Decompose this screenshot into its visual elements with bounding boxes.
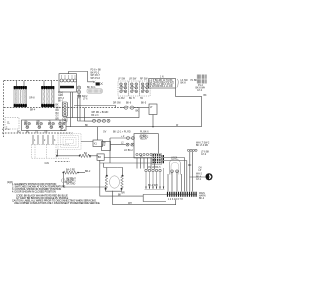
wire to oven lamp (189, 176, 206, 178)
svg-text:RD: RD (56, 110, 60, 112)
relay board box (134, 134, 164, 164)
svg-text:BK-6: BK-6 (126, 102, 132, 104)
harness bundle verticals (145, 168, 165, 189)
svg-text:LT-6: LT-6 (83, 99, 88, 101)
svg-text:BK-5: BK-5 (141, 103, 147, 105)
oven lamp (196, 168, 212, 181)
svg-text:RF SW: RF SW (140, 78, 148, 80)
svg-text:BU H: BU H (129, 98, 135, 100)
svg-text:LF SW: LF SW (118, 78, 126, 80)
svg-text:USE COPPER CONDUCTORS ONLY. DI: USE COPPER CONDUCTORS ONLY. DISCONNECT P… (14, 202, 101, 205)
terminal strip TB1 (167, 192, 198, 201)
maintop dashed boundary top (4, 80, 59, 82)
infinite switch SW1 (118, 81, 129, 96)
svg-text:GY-2: GY-2 (201, 154, 207, 156)
P2 pin circles (60, 79, 63, 82)
svg-text:BK-8: BK-8 (181, 82, 187, 84)
svg-text:BU: BU (26, 131, 30, 133)
short dashed segment (55, 160, 70, 162)
relay contact wires row 1 (110, 136, 149, 140)
latch switch box (169, 158, 180, 175)
svg-text:HARN: HARN (199, 195, 206, 198)
bottom wire row 2 (113, 191, 176, 205)
relay contact wires row 2 (103, 138, 134, 163)
svg-text:CL-4: CL-4 (60, 130, 66, 132)
svg-text:OV: OV (199, 168, 203, 170)
twin wires down from P2 area (71, 92, 85, 127)
svg-text:BK: BK (103, 142, 107, 144)
svg-text:BR: BR (98, 157, 102, 159)
svg-text:BR-2: BR-2 (85, 171, 91, 173)
svg-text:GRD: GRD (58, 95, 63, 97)
connector P2 box (59, 74, 77, 92)
svg-text:WH-P1-6: WH-P1-6 (91, 78, 101, 80)
svg-text:WH: WH (56, 107, 60, 109)
svg-text:BA: BA (84, 152, 88, 155)
wire right at 105.5 (74, 106, 116, 108)
svg-text:WH P2-7: WH P2-7 (91, 75, 101, 77)
svg-text:N WH-BR BK-4 L1 RD: N WH-BR BK-4 L1 RD (150, 86, 173, 88)
wire at 163 (100, 160, 152, 187)
svg-text:LOCK: LOCK (171, 158, 178, 160)
svg-text:P2-8 + BK: P2-8 + BK (91, 70, 102, 72)
wires latch box to terminal (168, 158, 187, 192)
verticals right of latch box (190, 152, 193, 192)
pin labels left of P3 (56, 105, 60, 121)
legend notes block (7, 181, 101, 205)
wires to broil legs (107, 168, 123, 176)
long feed wire across middle (66, 126, 202, 128)
svg-text:GY-4: GY-4 (197, 90, 203, 92)
svg-text:CAV: CAV (45, 162, 50, 165)
wire from box going right (104, 157, 152, 159)
broil loop element right leg (121, 175, 124, 190)
wires block to right verticals (162, 158, 187, 161)
motor dashed enclosure (32, 144, 70, 165)
wires dropping from selector (33, 135, 53, 145)
svg-text:BK: BK (56, 105, 60, 107)
stub nested box to bake wire (57, 150, 59, 156)
svg-text:OV: OV (103, 132, 107, 134)
component TOD box (141, 103, 157, 115)
svg-text:LR SW: LR SW (129, 78, 137, 80)
dashed line under selector (2, 128, 10, 130)
svg-text:WH: WH (128, 203, 132, 205)
wire from table to P1 drop (176, 88, 202, 127)
svg-text:BK: BK (204, 95, 208, 97)
wire door sw loop to selector (120, 107, 139, 109)
small box K1 (93, 140, 103, 147)
svg-text:RD: RD (17, 131, 21, 133)
thermostat contact row (91, 112, 110, 122)
svg-text:BR: BR (37, 122, 41, 124)
oven door switch on dashed line (113, 102, 139, 112)
maintop dashed boundary left (3, 81, 5, 138)
svg-text:BK-2 WH: BK-2 WH (148, 185, 158, 187)
svg-text:BA-2 RD: BA-2 RD (66, 169, 75, 172)
svg-text:GY: GY (35, 131, 39, 133)
svg-text:MAIN: MAIN (199, 192, 205, 195)
oven selector switch box (22, 120, 67, 131)
svg-text:BK LT-3 RD: BK LT-3 RD (196, 145, 208, 147)
wiring code table box (149, 79, 176, 89)
wire door sw to TOD and down (134, 107, 149, 109)
bottom wire row 1 (100, 187, 167, 202)
infinite switch SW3 (140, 81, 151, 96)
svg-text:4. DOOR SHOWN IN CLOSED POSITI: 4. DOOR SHOWN IN CLOSED POSITION (12, 191, 56, 194)
wire coil to K1 (81, 127, 98, 142)
wire from P2 top to right (69, 72, 94, 82)
broil loop element glass ellipse (110, 176, 120, 188)
X mark right of fuse (100, 82, 102, 85)
svg-text:BK: BK (118, 194, 122, 196)
svg-text:BK: BK (136, 110, 140, 112)
infinite switch SW2 (129, 81, 140, 96)
svg-text:GY-1: GY-1 (196, 179, 202, 181)
maintop dashed boundary lower (4, 107, 124, 109)
connector pin grid block (152, 154, 162, 165)
svg-text:WH-3: WH-3 (58, 98, 65, 100)
broil loop element left leg (105, 175, 108, 190)
svg-text:GY: GY (56, 116, 60, 118)
svg-text:P1 BK: P1 BK (191, 80, 198, 82)
broil element squiggle (62, 169, 91, 175)
svg-text:RD: RD (188, 165, 192, 167)
bake element squiggle wire (56, 152, 98, 158)
terminal circles T1 (77, 86, 80, 98)
svg-text:LO: LO (105, 112, 108, 114)
svg-text:LO BK-2: LO BK-2 (124, 150, 134, 152)
vertical wire x84 (84, 108, 92, 122)
svg-text:LP: LP (199, 170, 202, 172)
svg-text:BR: BR (122, 193, 126, 195)
clock dashed box CL (5, 118, 19, 130)
lock unit pin circles (187, 149, 197, 151)
svg-text:BK 2-3: BK 2-3 (91, 115, 99, 117)
brace right of table (177, 79, 178, 88)
svg-text:RELAY: RELAY (140, 137, 148, 140)
svg-text:BK-2: BK-2 (199, 198, 205, 200)
P2 black bar (60, 86, 74, 89)
connector P1 pin grid (196, 75, 207, 93)
svg-text:BA: BA (25, 121, 29, 124)
svg-text:OR: OR (44, 131, 48, 133)
svg-text:OVEN: OVEN (140, 136, 147, 138)
svg-text:BU: BU (56, 113, 60, 115)
svg-text:BK: BK (85, 125, 89, 127)
element lead stubs (17, 81, 52, 86)
svg-text:BK GR: BK GR (65, 182, 72, 184)
svg-text:P2-6: P2-6 (58, 93, 64, 95)
svg-text:BR-4: BR-4 (30, 110, 36, 112)
junction X at left of feed wire (59, 126, 61, 128)
bottom wire under broil (63, 173, 121, 191)
comb connector block (87, 89, 102, 93)
surface element E2 (right) (41, 86, 54, 107)
wires from relay board down to bundle (137, 158, 155, 170)
svg-text:DR SW: DR SW (113, 102, 121, 104)
relay board pin block (152, 155, 164, 163)
fuse F1 black block (93, 81, 95, 83)
svg-text:P1-2: P1-2 (198, 85, 204, 87)
small box K2 (102, 142, 111, 151)
svg-text:BK SW-2: BK SW-2 (78, 96, 88, 98)
svg-text:BK L2-1 + PL RD: BK L2-1 + PL RD (113, 132, 131, 134)
surface element E1 (left) (14, 86, 27, 107)
svg-text:L1 BU: L1 BU (118, 98, 125, 100)
capillary coil nested rectangles (58, 130, 81, 150)
P3 console connector strip (62, 102, 67, 122)
svg-text:GR-8: GR-8 (29, 98, 35, 100)
box right of bake squiggle (97, 154, 104, 160)
svg-text:BK-P1-2: BK-P1-2 (91, 72, 100, 74)
legend bracket note (61, 179, 62, 183)
svg-text:L TB SW: L TB SW (65, 179, 75, 181)
